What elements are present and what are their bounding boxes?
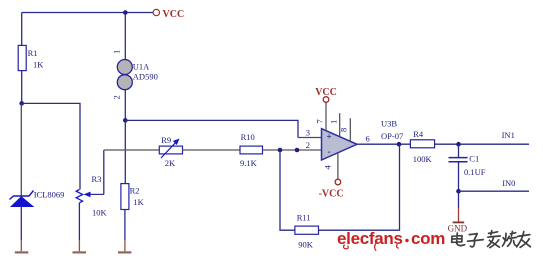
resistor R3 potentiometer [76, 174, 107, 218]
svg-text:R4: R4 [413, 129, 424, 139]
wire wiper vertical [103, 150, 105, 194]
wire R2 to ground [124, 210, 126, 252]
svg-text:OP-07: OP-07 [381, 131, 403, 141]
wire U1A to junction [124, 90, 126, 121]
op-amp U3B [322, 119, 404, 160]
ground left [15, 251, 28, 253]
wire IN0 [459, 178, 530, 191]
svg-text:U3B: U3B [381, 119, 397, 129]
pin 1 U1A [112, 50, 122, 54]
node top junction [123, 10, 128, 15]
pin 3 label [306, 127, 310, 137]
wire main horizontal to R9 [104, 149, 160, 151]
wire R3 to ground [78, 203, 80, 252]
node mid junction [123, 118, 128, 123]
wire junction to R2 [124, 120, 126, 183]
pin 8 stub [339, 118, 351, 141]
resistor R2 [121, 184, 145, 210]
svg-text:7: 7 [315, 119, 325, 123]
svg-text:R9: R9 [161, 135, 171, 145]
pin 4 [323, 153, 338, 179]
resistor R1 [18, 45, 44, 70]
wire junction to R3 branch [22, 103, 80, 189]
node feedback junction [278, 148, 283, 153]
svg-text:AD590: AD590 [133, 71, 158, 81]
capacitor C1 [449, 153, 486, 177]
pin 6 output wire [357, 133, 410, 144]
wire top rail [22, 12, 153, 14]
pin 2 label [306, 140, 310, 150]
svg-text:2: 2 [112, 95, 122, 99]
resistor R11 [295, 213, 319, 250]
svg-text:8: 8 [339, 128, 349, 132]
svg-text:GND: GND [448, 224, 468, 234]
svg-text:90K: 90K [298, 240, 314, 250]
wire R1 to junction [21, 71, 23, 104]
svg-text:1: 1 [329, 120, 339, 124]
svg-text:1K: 1K [33, 60, 44, 70]
wire to C1 [458, 144, 460, 157]
svg-text:ICL8069: ICL8069 [34, 189, 65, 199]
svg-text:0.1UF: 0.1UF [464, 167, 486, 177]
svg-text:VCC: VCC [163, 9, 185, 20]
svg-text:2K: 2K [165, 158, 176, 168]
wire mid vertical to U1A [124, 13, 126, 60]
svg-text:IN0: IN0 [502, 178, 515, 188]
svg-text:9.1K: 9.1K [240, 158, 258, 168]
svg-text:C1: C1 [469, 153, 479, 163]
wire R10 to pin2 [263, 149, 323, 151]
wire R4 to IN1 [435, 130, 529, 144]
svg-text:10K: 10K [92, 208, 108, 218]
svg-text:-: - [328, 147, 331, 157]
svg-text:1K: 1K [133, 197, 144, 207]
ground GND [448, 191, 468, 233]
wire C1 to IN0 node [458, 162, 460, 191]
node output junction [397, 142, 402, 147]
resistor R4 [410, 129, 434, 164]
node C1 junction [456, 142, 461, 147]
svg-text:+: + [327, 132, 332, 142]
svg-text:elecfans: elecfans [337, 229, 403, 248]
svg-text:R10: R10 [241, 132, 255, 142]
svg-text:U1A: U1A [133, 61, 150, 71]
node left junction [19, 101, 24, 106]
svg-text:-VCC: -VCC [319, 188, 344, 199]
svg-text:VCC: VCC [315, 87, 337, 98]
wire zener to ground [20, 207, 22, 252]
wire R11 to output [319, 144, 400, 230]
svg-text:IN1: IN1 [502, 130, 515, 140]
svg-text:R3: R3 [92, 174, 102, 184]
diode ICL8069 [10, 189, 65, 206]
watermark elecfans.com [337, 229, 445, 251]
node IN0 junction [456, 189, 461, 194]
pin 2 U1A [112, 95, 122, 99]
svg-text:R11: R11 [297, 213, 311, 223]
svg-text:com: com [411, 229, 445, 248]
wire left vertical upper [21, 13, 23, 46]
svg-text:3: 3 [306, 127, 310, 137]
power VCC top [153, 9, 184, 20]
node pin2 junction [295, 148, 300, 153]
svg-text:2: 2 [306, 140, 310, 150]
wire feedback down [280, 150, 295, 230]
svg-text:1: 1 [112, 50, 122, 54]
wire junction to zener [20, 103, 22, 196]
ground middle [73, 251, 87, 253]
power VCC opamp [315, 87, 337, 102]
wire junction to pin3 [125, 120, 322, 137]
watermark chinese [452, 231, 531, 248]
pin 7 [315, 102, 327, 131]
svg-text:100K: 100K [413, 154, 433, 164]
resistor R9 [159, 135, 182, 168]
wire R9 to R10 [183, 149, 241, 151]
resistor R10 [240, 132, 263, 168]
svg-text:6: 6 [366, 133, 370, 143]
pin 1 stub [329, 113, 340, 137]
power -VCC [319, 179, 344, 199]
svg-text:R2: R2 [130, 186, 140, 196]
svg-text:R1: R1 [28, 48, 38, 58]
ground right [118, 251, 131, 253]
svg-text:4: 4 [323, 165, 333, 170]
sensor U1A AD590 [117, 60, 158, 90]
